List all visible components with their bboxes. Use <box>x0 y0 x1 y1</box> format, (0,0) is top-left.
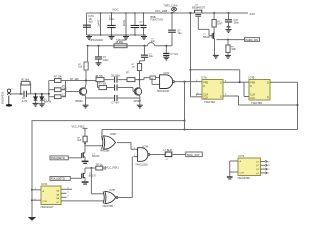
ground under IC6 <box>227 176 233 177</box>
MOSFET T3 BS107 <box>209 35 212 37</box>
svg-text:IC?A: IC?A <box>42 182 48 186</box>
resistor R11 vertical with rotated label <box>100 13 102 35</box>
svg-text:100u: 100u <box>103 59 109 62</box>
resistor R7 series <box>96 78 104 82</box>
transistor T1 BF862 <box>79 88 86 95</box>
resistor R21 44R to ground <box>227 39 229 41</box>
svg-text:74HC1G00: 74HC1G00 <box>157 90 170 93</box>
feedback right vertical <box>297 82 299 129</box>
svg-text:1k0: 1k0 <box>77 139 82 142</box>
ground under T2 <box>137 104 143 106</box>
FF2 D feed from clock bus <box>190 69 192 71</box>
ground under filter 4 <box>143 35 145 37</box>
svg-text:BSS84/SOT: BSS84/SOT <box>192 6 206 9</box>
svg-text:QC: QC <box>56 202 60 204</box>
svg-text:74HC2G0?: 74HC2G0? <box>40 205 54 209</box>
svg-text:4u7F: 4u7F <box>22 100 28 103</box>
transistor T2 <box>134 88 141 95</box>
ground under T1 hatched <box>83 104 89 106</box>
svg-text:Q: Q <box>267 96 269 99</box>
svg-text:74HC2G00D: 74HC2G00D <box>89 39 103 42</box>
svg-text:XOR?: XOR? <box>110 133 117 136</box>
svg-text:IC?B: IC?B <box>110 189 116 192</box>
svg-text:10k0: 10k0 <box>62 88 68 91</box>
ground under T5 solid <box>82 181 89 183</box>
IC6 left pins and ground <box>234 160 239 162</box>
svg-text:FSK2(DET1): FSK2(DET1) <box>51 157 65 160</box>
resistor R30 1k0 <box>83 136 87 142</box>
svg-text:R? 10k: R? 10k <box>99 83 107 86</box>
svg-text:CLK: CLK <box>203 97 208 100</box>
svg-text:IC?3: IC?3 <box>239 154 245 158</box>
ground under filter 2 <box>111 35 113 37</box>
FF1 Q output wire <box>223 81 244 83</box>
svg-text:FSK1(DET2): FSK1(DET2) <box>51 178 65 181</box>
resistor R3 10k <box>49 89 55 91</box>
FF2 D input wire <box>244 81 250 83</box>
svg-text:BAV99: BAV99 <box>44 101 52 104</box>
svg-text:74AC1G00: 74AC1G00 <box>135 163 148 166</box>
svg-text:VCC_FSK1: VCC_FSK1 <box>106 166 120 169</box>
svg-text:R? 10k: R? 10k <box>54 76 62 79</box>
FF1 CLK wire from clock bus <box>190 13 192 97</box>
svg-text:C? 10n: C? 10n <box>171 53 179 56</box>
supply resistor above T2 R10 1M <box>144 45 146 47</box>
capacitor C24 above T2 <box>141 54 148 56</box>
T1 collector wire <box>85 85 87 87</box>
bottom NAND gate IC4C <box>90 168 92 194</box>
svg-text:4u0: 4u0 <box>89 21 94 24</box>
svg-text:HARD_DIS: HARD_DIS <box>245 39 258 42</box>
gate input 2 stub <box>151 78 153 85</box>
FF2 input bracket <box>243 82 245 96</box>
resistor R2 10k <box>49 80 55 82</box>
connector ground blob <box>8 96 10 105</box>
svg-text:BS107: BS107 <box>203 36 211 39</box>
svg-text:10n: 10n <box>151 40 156 43</box>
capacitor CB 100n series <box>114 77 116 83</box>
resistor R8 series <box>127 78 135 82</box>
capacitor C17 100n on rail <box>228 12 230 14</box>
svg-text:10u: 10u <box>178 32 183 35</box>
XOR output wire <box>117 142 131 144</box>
ground under filter 3 <box>125 35 127 37</box>
FF1 Qbar output wire <box>223 95 239 97</box>
svg-text:D: D <box>203 85 205 88</box>
FF1 Qbar vertical <box>238 96 240 105</box>
svg-text:IC?B: IC?B <box>143 146 149 149</box>
wire hop <box>148 43 155 46</box>
HARD_DIS label box <box>245 38 260 42</box>
svg-text:BS170: BS170 <box>92 155 100 158</box>
final NAND gate IC4B <box>131 148 138 150</box>
svg-text:IC?A: IC?A <box>201 76 207 80</box>
svg-text:Q: Q <box>220 81 222 84</box>
Q1 gate wire down <box>197 16 199 29</box>
XOR gate IC4A top <box>101 130 103 140</box>
lower row cap C 4n7 <box>86 97 114 99</box>
svg-text:R1 5k6: R1 5k6 <box>22 79 30 82</box>
capacitor C23 10n to ground <box>165 46 167 53</box>
svg-text:D: D <box>250 85 252 88</box>
feedback bottom wire <box>102 129 298 131</box>
svg-text:CLR: CLR <box>43 201 48 203</box>
svg-text:L? BLM: L? BLM <box>164 149 172 152</box>
IC5 left pin 1 wire <box>31 189 33 191</box>
ground triangle bottom left <box>28 217 36 221</box>
svg-text:CLK: CLK <box>250 97 255 100</box>
filter block left vertical wire <box>86 13 88 35</box>
T2 emitter to ground <box>139 96 141 106</box>
svg-text:FUNCTION: FUNCTION <box>151 19 164 22</box>
svg-text:APN2?: APN2? <box>134 100 142 103</box>
capacitor C2 4u7 series <box>23 91 25 97</box>
T1 emitter to ground <box>85 96 87 106</box>
svg-text:IC?A: IC?A <box>164 72 170 75</box>
svg-text:CB 100n: CB 100n <box>111 74 121 77</box>
resistor R1 5k6 parallel loop <box>20 93 22 95</box>
ferrite bead L1 <box>150 154 165 156</box>
resistor R9 middle row <box>99 86 107 90</box>
HARD_DIS wire <box>217 39 245 41</box>
svg-text:1M: 1M <box>132 66 135 68</box>
capacitor CN 100n middle <box>114 84 116 90</box>
MOSFET T4 BS170 <box>68 157 81 159</box>
svg-text:2x22u: 2x22u <box>123 19 126 26</box>
bias right bus wire <box>65 81 67 97</box>
analog switch IC6 74HC4066 yellow box <box>238 158 261 176</box>
T2 base riser <box>132 88 134 92</box>
capacitor C21 100u to ground <box>98 45 100 47</box>
FF2 Q output feedback wire <box>270 81 298 83</box>
svg-text:44R: 44R <box>231 48 236 51</box>
first stage signal row <box>85 80 87 82</box>
bias resistor bus <box>48 81 50 101</box>
svg-text:2x4R7: 2x4R7 <box>97 19 100 27</box>
svg-text:R? 1k: R? 1k <box>96 163 103 166</box>
svg-text:74AC74D: 74AC74D <box>251 101 262 105</box>
resistor R31 1k <box>85 167 96 169</box>
svg-text:C? 4n7: C? 4n7 <box>112 102 120 105</box>
flip-flop IC3A 74AC74D yellow box <box>202 80 223 100</box>
resistor R20 divider <box>213 12 215 14</box>
net flag TRIG_OUT <box>172 154 186 156</box>
svg-text:100u: 100u <box>109 18 115 21</box>
power rail KDC +24V <box>87 12 249 14</box>
IC6 right pin stubs with arrows <box>261 161 266 163</box>
capacitor C15 2u2 <box>143 13 145 25</box>
svg-text:2u2: 2u2 <box>140 24 145 27</box>
T2 collector wire <box>139 85 141 87</box>
IC5 left pin 2 wire <box>31 199 33 201</box>
svg-text:Q: Q <box>267 81 269 84</box>
MOSFET T5 BS170 <box>84 168 86 173</box>
svg-text:74HC4066: 74HC4066 <box>237 176 250 180</box>
IC5 right pin wires <box>61 188 72 190</box>
ground under T4 solid <box>82 161 89 163</box>
junction dots filter rails <box>100 12 102 14</box>
resistor R45 45R <box>114 44 127 48</box>
input pin box <box>150 76 156 79</box>
svg-text:SMD34B1B: SMD34B1B <box>1 91 4 104</box>
ground under filter 1 <box>88 35 90 37</box>
T2 collector junction to gate <box>139 79 141 81</box>
filter block bottom rail <box>87 34 147 36</box>
svg-text:74AC?86: 74AC?86 <box>102 205 113 208</box>
svg-text:BF862: BF862 <box>76 100 84 103</box>
svg-text:VCC_HKB: VCC_HKB <box>155 9 168 13</box>
svg-text:KDC: KDC <box>113 8 120 12</box>
capacitor C14 pair <box>134 13 136 25</box>
svg-text:Q: Q <box>220 96 222 99</box>
svg-text:10u: 10u <box>149 55 154 58</box>
svg-text:BS170: BS170 <box>89 175 97 178</box>
resistor R4 1k <box>49 96 55 98</box>
net flag FSK1(DET2) <box>50 177 70 181</box>
svg-text:74AC586: 74AC586 <box>100 150 111 153</box>
wire column with rotated label 2x22u <box>125 13 127 35</box>
svg-text:74AC74D: 74AC74D <box>204 100 215 104</box>
ground under T3 <box>213 54 219 56</box>
svg-text:4R 7k5: 4R 7k5 <box>95 75 103 78</box>
net flag FSK2(DET1) <box>50 156 68 160</box>
diode D1 to ground <box>35 93 37 95</box>
drain junction wire to XOR input <box>84 143 86 145</box>
svg-text:45 45R: 45 45R <box>116 41 124 44</box>
svg-text:TXRX_CLKA: TXRX_CLKA <box>164 5 178 8</box>
logic IC5 74HC2G00 yellow box <box>41 186 61 205</box>
NAND output wire to FF1 D <box>175 81 203 83</box>
diode D2 to ground <box>41 93 43 95</box>
NAND gate IC2A body <box>160 75 173 89</box>
svg-text:DIV?: DIV? <box>217 22 223 25</box>
capacitor C13 100u <box>111 13 113 25</box>
svg-text:TRIG_OUT: TRIG_OUT <box>187 153 201 157</box>
supply wire VCCA <box>88 45 148 47</box>
svg-text:100n: 100n <box>234 22 240 25</box>
FF1 CLR stub <box>196 93 202 95</box>
IC5 pin to IC4C wire <box>61 200 100 202</box>
capacitor C22 10u from rail <box>171 12 173 14</box>
left loop wire <box>184 82 186 121</box>
bottom feedback wire <box>239 104 298 106</box>
middle row tap <box>97 82 99 88</box>
supply resistor R6 above T1 <box>87 45 89 47</box>
capacitor C12 electrolytic <box>83 24 91 26</box>
svg-text:IC?B: IC?B <box>249 76 255 80</box>
IC4C output wire up to IC4B <box>118 197 132 199</box>
svg-text:24V: 24V <box>250 12 255 16</box>
svg-text:CLR: CLR <box>240 172 245 174</box>
flip-flop IC3B 74AC74D yellow box <box>249 80 270 101</box>
input signal wire <box>11 93 23 95</box>
